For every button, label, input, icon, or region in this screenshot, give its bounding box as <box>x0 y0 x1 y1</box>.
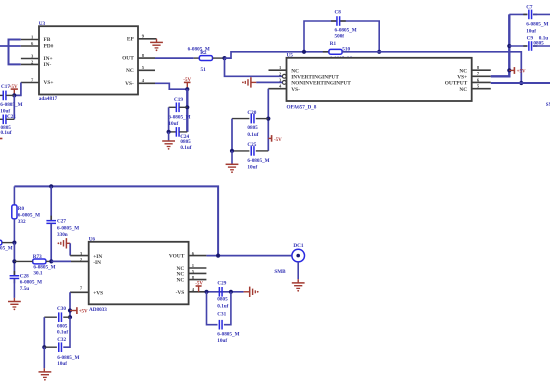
wire inverting node to feedback line <box>225 52 329 58</box>
junction +5V tap U6 <box>68 308 72 312</box>
junction C30 right <box>68 315 72 319</box>
svg-text:+5V: +5V <box>79 310 88 315</box>
resistor R1 <box>323 41 352 62</box>
junction C29 right <box>229 290 233 294</box>
wire noninverting input U5 <box>256 81 282 83</box>
ground +IN U6 <box>58 238 89 256</box>
ground (left edge partial) <box>0 138 2 140</box>
ground DC1 <box>292 283 305 292</box>
junction C20 right <box>266 117 270 121</box>
svg-text:0805: 0805 <box>247 125 258 131</box>
svg-text:-VS: -VS <box>176 290 185 296</box>
svg-text:10uf: 10uf <box>57 361 67 367</box>
wire node A to C28 <box>13 243 15 276</box>
junction C8 left <box>302 50 306 54</box>
ground noninverting input U5 <box>242 77 256 87</box>
junction +5V tap <box>507 68 511 72</box>
junction C8 right <box>377 50 381 54</box>
svg-text:VS-: VS- <box>125 81 134 87</box>
capacitor C28 <box>8 271 42 310</box>
svg-text:-5V: -5V <box>274 138 282 143</box>
resistor R0 <box>12 186 40 242</box>
svg-text:C30: C30 <box>57 306 66 312</box>
svg-text:NC: NC <box>459 87 467 93</box>
wire U3 VS+ to +5V node <box>14 83 21 96</box>
wire VOUT net <box>206 255 292 257</box>
svg-text:NC: NC <box>126 68 134 74</box>
junction -IN left <box>12 259 16 263</box>
power -5V (U5) <box>268 135 282 143</box>
power -5V (U6) <box>195 282 203 292</box>
svg-text:U5: U5 <box>287 53 294 59</box>
power +5V (U3) <box>9 85 18 96</box>
svg-text:0805: 0805 <box>180 139 191 145</box>
svg-text:0805: 0805 <box>57 324 68 330</box>
capacitor C9 <box>509 35 550 50</box>
svg-text:330n: 330n <box>57 232 68 238</box>
svg-text:0805: 0805 <box>533 41 544 47</box>
op-amp U3 ada4817 <box>21 21 157 102</box>
junction C9 left <box>507 44 511 48</box>
op-amp U5 OPA657_D_8 <box>268 53 491 111</box>
capacitor C8 <box>331 9 357 39</box>
junction -5V node <box>185 87 189 91</box>
capacitor C31 <box>207 292 240 344</box>
wire -IN to U6 <box>51 260 88 262</box>
wire feedback rail (bottom) <box>14 186 218 255</box>
wire FB to IN- feedback loop <box>9 40 21 65</box>
connector DC1 SMB <box>274 243 304 275</box>
junction node A <box>12 241 16 245</box>
ground C19/C24 <box>162 132 175 150</box>
wire U3 OUT to R2 <box>155 57 194 59</box>
junction VOUT <box>216 254 220 258</box>
svg-text:INVERTINGINPUT: INVERTINGINPUT <box>291 74 339 80</box>
ground C20/C25 <box>226 151 239 173</box>
svg-text:6-0805_M: 6-0805_M <box>526 21 548 27</box>
svg-text:C29: C29 <box>217 281 226 287</box>
power -5V (U3) <box>183 78 191 89</box>
svg-text:IN-: IN- <box>44 62 52 68</box>
svg-text:500f: 500f <box>335 34 345 40</box>
capacitor C24 <box>169 127 192 151</box>
svg-text:C31: C31 <box>217 312 226 318</box>
svg-text:6-0805_M: 6-0805_M <box>217 331 239 337</box>
resistor R2 <box>188 47 225 74</box>
wire PD# input net <box>0 45 21 47</box>
svg-text:0.1uf: 0.1uf <box>217 304 228 310</box>
junction C32 left <box>42 345 46 349</box>
ground C30/C32 <box>39 347 52 380</box>
capacitor C30 <box>44 306 70 336</box>
capacitor C21 <box>0 114 16 136</box>
svg-text:805_M: 805_M <box>0 245 13 251</box>
svg-text:0805: 0805 <box>217 297 228 303</box>
svg-text:AD8033: AD8033 <box>89 307 107 313</box>
svg-text:OUTPUT: OUTPUT <box>445 81 468 87</box>
svg-text:C7: C7 <box>526 5 533 11</box>
svg-text:EP: EP <box>127 36 135 42</box>
wire feedback to output <box>342 52 521 83</box>
svg-text:VS+: VS+ <box>44 80 54 86</box>
svg-text:C28: C28 <box>20 274 29 280</box>
net label S (clipped) <box>546 103 550 108</box>
svg-text:R0: R0 <box>18 206 25 212</box>
svg-text:C21: C21 <box>7 114 16 120</box>
svg-text:10uf: 10uf <box>526 29 536 35</box>
svg-text:0.1uf: 0.1uf <box>180 145 191 151</box>
wire +5V node to C21 <box>13 95 15 119</box>
svg-text:-IN: -IN <box>93 260 101 266</box>
ground EP pin <box>150 39 163 51</box>
capacitor C27 <box>46 186 79 261</box>
svg-text:U3: U3 <box>39 21 46 27</box>
capacitor C20 <box>232 110 268 138</box>
svg-text:51: 51 <box>201 67 207 73</box>
wire C30 left down <box>43 317 45 347</box>
junction C25 left <box>230 149 234 153</box>
svg-text:FB: FB <box>44 37 51 43</box>
wire U3 VS- to -5V node <box>155 83 187 89</box>
wire C8 branch <box>304 21 379 52</box>
svg-text:ada4817: ada4817 <box>39 96 58 102</box>
svg-text:7.5u: 7.5u <box>20 286 29 292</box>
svg-text:C17: C17 <box>1 84 10 90</box>
op-amp U6 AD8033 <box>70 237 206 313</box>
svg-text:+IN: +IN <box>93 254 102 260</box>
svg-text:R73: R73 <box>33 254 42 260</box>
svg-text:NC: NC <box>459 68 467 74</box>
junction +5V node U3 <box>12 93 16 97</box>
power +5V (U6) <box>70 307 88 314</box>
wire OUTPUT net U5 <box>491 82 550 84</box>
svg-text:+5V: +5V <box>517 70 526 75</box>
svg-text:C9: C9 <box>527 35 534 41</box>
svg-text:VOUT: VOUT <box>169 254 185 260</box>
svg-text:332: 332 <box>18 219 26 225</box>
ground -VS (sideways) <box>244 287 259 297</box>
capacitor C29 <box>217 281 228 310</box>
svg-text:6-0805_M: 6-0805_M <box>0 102 22 108</box>
svg-text:VS-: VS- <box>291 87 300 93</box>
junction rail-C27 <box>49 184 53 188</box>
svg-text:6-0805_M: 6-0805_M <box>18 212 40 218</box>
svg-text:SMB: SMB <box>274 269 286 275</box>
capacitor C19 <box>168 97 190 127</box>
capacitor C17 <box>0 84 23 115</box>
junction C19 right <box>185 105 189 109</box>
wire -5V node down <box>186 89 188 132</box>
capacitor C7 <box>509 5 550 35</box>
svg-text:C20: C20 <box>247 110 256 116</box>
resistor R73 <box>14 254 55 277</box>
resistor at left edge (partial) <box>0 240 14 251</box>
capacitor C32 <box>44 317 79 367</box>
wire to U5 inverting input <box>225 58 283 76</box>
svg-text:C27: C27 <box>57 219 66 225</box>
wire -VS to C29 <box>206 291 243 293</box>
svg-text:30.1: 30.1 <box>33 270 42 276</box>
svg-text:R1: R1 <box>330 41 337 47</box>
svg-text:OUT: OUT <box>122 56 134 62</box>
svg-text:10uf: 10uf <box>217 338 227 344</box>
junction inverting input node <box>222 56 226 60</box>
wire +VS to C30 <box>69 292 71 317</box>
junction C24 left <box>167 130 171 134</box>
svg-text:NONINVERTINGINPUT: NONINVERTINGINPUT <box>291 81 351 87</box>
svg-text:C19: C19 <box>174 97 183 103</box>
svg-text:6-0805_M: 6-0805_M <box>57 226 79 232</box>
svg-text:6-0805_M: 6-0805_M <box>57 355 79 361</box>
wire +5V rail <box>491 14 510 76</box>
svg-text:0.1uf: 0.1uf <box>57 330 68 336</box>
svg-text:6-0805_M: 6-0805_M <box>20 280 42 286</box>
svg-text:DC1: DC1 <box>293 243 303 249</box>
svg-text:0.1uf: 0.1uf <box>247 132 258 138</box>
wire C19-C24 left side <box>168 107 170 132</box>
svg-text:6-0805_M: 6-0805_M <box>247 158 269 164</box>
junction -IN node <box>49 259 53 263</box>
svg-text:+5V: +5V <box>9 85 18 90</box>
svg-text:NC: NC <box>291 68 299 74</box>
junction C29 left <box>204 290 208 294</box>
svg-text:10uf: 10uf <box>168 121 178 127</box>
svg-text:PD#: PD# <box>44 43 54 49</box>
svg-text:SM: SM <box>546 103 550 108</box>
wire C20-C25 left side <box>231 119 233 151</box>
svg-text:NC: NC <box>177 272 185 278</box>
svg-text:VS+: VS+ <box>457 74 467 80</box>
power +5V (U5) <box>509 67 526 74</box>
capacitor C25 <box>232 142 270 171</box>
svg-text:C8: C8 <box>335 9 342 15</box>
junction feedback-output <box>519 81 523 85</box>
svg-text:10uf: 10uf <box>247 165 257 171</box>
svg-text:6-0805_M: 6-0805_M <box>168 115 190 121</box>
svg-text:U6: U6 <box>89 237 96 243</box>
svg-text:C25: C25 <box>247 142 256 148</box>
wire DC1 to ground <box>297 262 299 283</box>
svg-text:NC: NC <box>177 278 185 284</box>
svg-text:C32: C32 <box>57 337 66 343</box>
svg-text:OPA657_D_8: OPA657_D_8 <box>287 104 317 110</box>
svg-text:0.1uf: 0.1uf <box>1 130 12 136</box>
svg-text:+VS: +VS <box>93 290 103 296</box>
svg-text:R2: R2 <box>200 50 207 56</box>
wire U5 VS- to -5V rail <box>267 89 269 151</box>
